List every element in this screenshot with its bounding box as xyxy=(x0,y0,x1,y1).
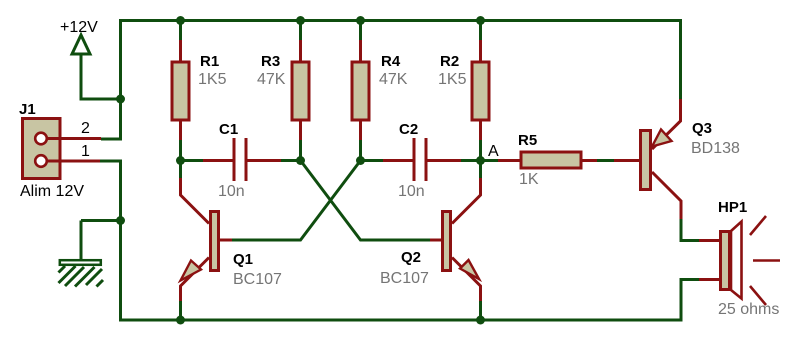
svg-text:BD138: BD138 xyxy=(691,140,740,157)
capacitor C2 xyxy=(383,138,461,181)
svg-text:Q2: Q2 xyxy=(401,249,421,266)
capacitor C1 xyxy=(203,138,281,181)
wire Q3 collector to HP1 xyxy=(681,219,699,241)
svg-text:R3: R3 xyxy=(261,53,280,70)
wire Q2 emitter stub xyxy=(479,301,482,320)
svg-text:1K5: 1K5 xyxy=(438,71,467,88)
svg-text:J1: J1 xyxy=(19,101,36,118)
wire Q1 emitter stub xyxy=(179,301,182,320)
svg-text:1K5: 1K5 xyxy=(198,71,227,88)
wire resistor stubs R1 xyxy=(179,21,182,161)
svg-text:C1: C1 xyxy=(219,121,238,138)
node R2 top xyxy=(476,16,485,25)
wire resistor stubs R3 xyxy=(299,21,302,161)
wire ground stem xyxy=(80,221,83,260)
svg-text:R4: R4 xyxy=(381,53,401,70)
resistor R4 xyxy=(352,40,369,140)
svg-text:1: 1 xyxy=(81,143,90,160)
resistor R1 xyxy=(172,40,189,140)
transistor Q3 xyxy=(614,99,681,219)
node Q2 emitter rail xyxy=(476,316,485,325)
svg-text:R2: R2 xyxy=(440,53,459,70)
svg-text:25 ohms: 25 ohms xyxy=(718,301,779,318)
transistor Q1 xyxy=(181,178,233,301)
node Q1 collector xyxy=(176,156,185,165)
node R4 top xyxy=(356,16,365,25)
wire top rail +12V xyxy=(101,21,681,140)
node R1 top xyxy=(176,16,185,25)
wire cap row segments xyxy=(181,159,615,162)
ground xyxy=(60,260,101,265)
wire cross-couple node C1 to Q2 base xyxy=(301,161,431,241)
svg-text:47K: 47K xyxy=(257,71,286,88)
node C2 left xyxy=(356,156,365,165)
resistor R3 xyxy=(292,40,309,140)
svg-text:47K: 47K xyxy=(379,71,408,88)
resistor R5 xyxy=(498,152,597,168)
wire Q1 collector stub xyxy=(179,161,182,179)
svg-text:HP1: HP1 xyxy=(718,199,747,216)
wire Q2 collector stub xyxy=(479,161,482,179)
svg-text:Alim 12V: Alim 12V xyxy=(20,183,84,200)
wire cross-couple node C2 to Q1 base xyxy=(232,161,361,241)
node +12V tap xyxy=(116,95,125,104)
svg-text:BC107: BC107 xyxy=(233,271,282,288)
node C1 right xyxy=(296,156,305,165)
node Q1 emitter rail xyxy=(176,316,185,325)
svg-text:BC107: BC107 xyxy=(380,270,429,287)
svg-text:A: A xyxy=(488,143,499,160)
svg-text:2: 2 xyxy=(81,120,90,137)
node ground tap xyxy=(116,216,125,225)
wire ground rail left/bottom xyxy=(100,161,699,320)
wire resistor stubs R2 xyxy=(479,21,482,161)
svg-text:10n: 10n xyxy=(218,183,245,200)
wire resistor stubs R4 xyxy=(359,21,362,161)
svg-text:+12V: +12V xyxy=(60,19,98,36)
svg-text:Q3: Q3 xyxy=(692,120,712,137)
svg-text:10n: 10n xyxy=(398,183,425,200)
svg-text:R1: R1 xyxy=(200,53,219,70)
svg-text:C2: C2 xyxy=(399,121,418,138)
svg-text:1K: 1K xyxy=(519,171,539,188)
wire +12V branch xyxy=(81,55,121,99)
transistor Q2 xyxy=(430,178,481,301)
power symbol +12V xyxy=(72,35,90,54)
svg-text:R5: R5 xyxy=(518,132,537,149)
resistor R2 xyxy=(472,40,489,140)
speaker HP1 xyxy=(699,216,780,305)
svg-text:Q1: Q1 xyxy=(233,251,253,268)
wire ground branch xyxy=(81,219,121,222)
connector J1 xyxy=(23,119,102,179)
node A junction xyxy=(476,156,485,165)
node R3 top xyxy=(296,16,305,25)
